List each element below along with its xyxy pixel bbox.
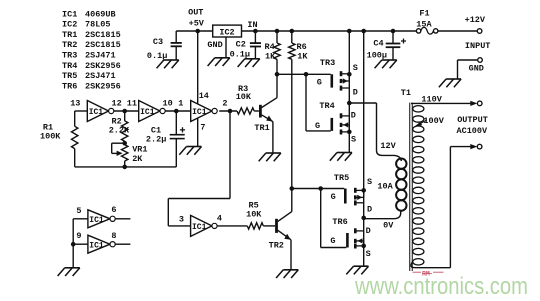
- transformer T1 primary winding 12V/0V 10A: [377, 141, 406, 231]
- wire T1 secondary bottom to output terminal: [411, 144, 477, 268]
- svg-text:TR3: TR3: [62, 51, 77, 61]
- svg-text:F1: F1: [419, 8, 429, 18]
- svg-text:IC1: IC1: [140, 108, 155, 117]
- svg-text:IC1: IC1: [192, 108, 207, 117]
- svg-text:GND: GND: [207, 40, 222, 50]
- terminal GND (input): [458, 58, 484, 79]
- svg-text:OUT: OUT: [188, 8, 203, 18]
- svg-text:4069UB: 4069UB: [85, 9, 116, 19]
- svg-text:TR3: TR3: [320, 58, 335, 68]
- svg-text:TR4: TR4: [62, 61, 77, 71]
- transformer T1 secondary winding: [413, 106, 424, 265]
- svg-text:15A: 15A: [416, 19, 432, 29]
- fuse F1 15A: [416, 8, 438, 34]
- svg-text:2: 2: [222, 99, 227, 109]
- svg-text:1: 1: [178, 99, 183, 109]
- ground (C2): [238, 59, 260, 67]
- svg-text:S: S: [366, 249, 371, 259]
- svg-text:TR2: TR2: [62, 40, 77, 50]
- op-amp/inverter IC1 pins 9-8: [76, 231, 130, 253]
- ground (input GND terminal): [439, 79, 461, 87]
- legend: parts list IC1..TR6: [62, 9, 121, 91]
- capacitor C1 2.2u: [146, 111, 185, 167]
- wire TR3/TR4 gate rail: [275, 72, 331, 77]
- wire IC2 GND lead: [207, 37, 226, 57]
- wire pin2 to R3 and feedback node: [219, 109, 237, 114]
- svg-text:S: S: [353, 63, 358, 73]
- svg-text:10A: 10A: [377, 181, 393, 191]
- transistor TR1 2SC1815 (NPN): [254, 74, 277, 152]
- transistor TR6 2SK2956 (N-MOSFET): [330, 216, 370, 259]
- ground (unused inverter inputs): [58, 268, 80, 276]
- label 100V tap with arrow: [415, 116, 445, 127]
- transistor TR4 2SK2956 (N-MOSFET): [315, 101, 356, 145]
- wire rail to TR5 source: [361, 29, 366, 266]
- wire pin10 to pin1: [165, 109, 191, 114]
- svg-text:S: S: [351, 135, 356, 145]
- svg-text:G: G: [331, 192, 336, 202]
- ground (TR4 source): [330, 153, 352, 161]
- transistor TR5 2SJ471 (P-MOSFET): [331, 173, 373, 215]
- transistor TR2 2SC1815 (NPN): [269, 212, 292, 270]
- svg-text:2.2K: 2.2K: [109, 125, 130, 135]
- svg-text:C2: C2: [236, 39, 246, 49]
- ground (C4): [375, 60, 397, 68]
- transformer T1 core: [401, 88, 413, 271]
- potentiometer VR1 2K: [112, 141, 148, 167]
- svg-text:2SJ471: 2SJ471: [85, 71, 116, 81]
- svg-text:+5V: +5V: [189, 19, 205, 29]
- wire TR3/TR4 drains to T1 12V tap: [349, 103, 401, 161]
- resistor R6 1K: [289, 29, 309, 62]
- svg-text:78L05: 78L05: [85, 20, 111, 30]
- svg-text:12: 12: [112, 99, 122, 109]
- capacitor C4 100u: [367, 29, 406, 61]
- svg-text:IC1: IC1: [192, 223, 207, 232]
- svg-text:2SC1815: 2SC1815: [85, 40, 121, 50]
- terminal output AC100V: [457, 115, 489, 149]
- svg-text:2SK2956: 2SK2956: [85, 81, 121, 91]
- ground (TR2 emitter): [276, 270, 298, 278]
- ground (IC1 pin7): [179, 147, 201, 155]
- svg-text:IC2: IC2: [62, 20, 77, 30]
- resistor R3 10K: [236, 84, 259, 114]
- op-amp/inverter IC1 pins 11-10: [127, 99, 173, 122]
- svg-text:110V: 110V: [421, 95, 442, 105]
- svg-text:2SJ471: 2SJ471: [85, 51, 116, 61]
- svg-text:D: D: [351, 110, 356, 120]
- wire inverter inputs to ground: [71, 219, 88, 267]
- wire pin4 to R5: [217, 225, 247, 227]
- wire R6 column down to TR2 collector / gate rail: [291, 59, 293, 211]
- op-amp/inverter IC1 pins 13-12: [70, 99, 122, 122]
- svg-text:TR5: TR5: [62, 71, 77, 81]
- wire rail to TR3 source: [347, 29, 352, 153]
- terminal +12V: [465, 15, 491, 51]
- svg-text:6: 6: [111, 205, 116, 215]
- svg-text:2.2μ: 2.2μ: [146, 135, 166, 145]
- svg-text:11: 11: [127, 99, 137, 109]
- svg-text:TR1: TR1: [62, 30, 77, 40]
- svg-text:IN: IN: [247, 20, 257, 30]
- transistor TR3 2SJ471 (P-MOSFET): [317, 58, 358, 97]
- terminal output 110V: [477, 101, 482, 106]
- svg-text:D: D: [353, 88, 358, 98]
- op-amp/inverter IC1 pins 1-2: [178, 99, 227, 122]
- svg-text:IC1: IC1: [89, 216, 104, 225]
- svg-text:T1: T1: [401, 88, 411, 98]
- svg-text:TR6: TR6: [332, 217, 347, 227]
- svg-text:13: 13: [70, 99, 80, 109]
- svg-text:INPUT: INPUT: [465, 41, 491, 51]
- svg-text:G: G: [330, 236, 335, 246]
- svg-text:100V: 100V: [423, 116, 444, 126]
- svg-text:C4: C4: [373, 39, 383, 49]
- svg-text:IC1: IC1: [89, 241, 104, 250]
- svg-text:IC2: IC2: [219, 28, 234, 38]
- svg-text:100K: 100K: [40, 131, 61, 141]
- svg-text:2K: 2K: [132, 154, 143, 164]
- wire pin12 to pin11: [114, 109, 139, 114]
- svg-text:OUTPUT: OUTPUT: [457, 115, 488, 125]
- resistor R1 100K: [40, 111, 87, 167]
- svg-text:TR5: TR5: [334, 173, 349, 183]
- svg-text:TR1: TR1: [254, 123, 269, 133]
- svg-text:10K: 10K: [236, 92, 252, 102]
- svg-text:5: 5: [76, 206, 81, 216]
- watermark RM (red): [413, 270, 444, 277]
- wire IC1 pin14 to +5V: [198, 31, 209, 104]
- svg-text:IC1: IC1: [62, 9, 77, 19]
- svg-text:9: 9: [76, 231, 81, 241]
- svg-text:TR2: TR2: [269, 241, 284, 251]
- svg-text:3: 3: [179, 215, 184, 225]
- node OUT +5V: [188, 8, 205, 34]
- svg-text:100μ: 100μ: [367, 50, 387, 60]
- svg-text:TR6: TR6: [62, 81, 77, 91]
- svg-text:7: 7: [200, 123, 205, 133]
- svg-text:IC1: IC1: [89, 108, 104, 117]
- svg-text:12V: 12V: [380, 141, 396, 151]
- wire TR5/TR6 drains to T1 0V tap: [364, 212, 401, 219]
- svg-text:S: S: [367, 177, 372, 187]
- svg-text:1K: 1K: [297, 51, 308, 61]
- svg-text:2SK2956: 2SK2956: [85, 61, 121, 71]
- resistor R4 1K: [265, 29, 281, 75]
- wire TR5/TR6 gate rail: [290, 186, 345, 191]
- svg-text:8: 8: [111, 231, 116, 241]
- svg-text:D: D: [367, 205, 372, 215]
- svg-text:G: G: [317, 77, 322, 87]
- svg-text:C3: C3: [153, 37, 163, 47]
- svg-text:+12V: +12V: [465, 15, 486, 25]
- ground (IC2): [208, 58, 230, 66]
- wire gate drop to TR6: [320, 189, 322, 248]
- svg-text:10K: 10K: [246, 210, 262, 220]
- wire +5V/+12V top rail: [176, 30, 477, 32]
- regulator IC2 78L05: [213, 25, 242, 37]
- svg-text:G: G: [315, 121, 320, 131]
- ground (TR1 emitter): [259, 153, 281, 161]
- svg-text:10: 10: [163, 99, 173, 109]
- op-amp/inverter IC1 pins 5-6: [76, 205, 130, 228]
- svg-text:4: 4: [217, 214, 222, 224]
- capacitor C3 0.1u: [147, 31, 182, 61]
- wire feedback pin2 to pin3: [229, 111, 231, 199]
- wire gate drop to TR4: [305, 74, 307, 131]
- svg-text:TR4: TR4: [319, 101, 334, 111]
- svg-text:1K: 1K: [265, 51, 276, 61]
- wire oscillator bottom rail: [75, 165, 177, 170]
- svg-text:2SC1815: 2SC1815: [85, 30, 121, 40]
- wire IC1 pin7 to ground: [198, 118, 206, 146]
- svg-text:www.cntronics.com: www.cntronics.com: [354, 273, 528, 300]
- wire T1 secondary top 110V to output: [411, 95, 477, 106]
- ground (TR6 source): [346, 266, 368, 274]
- resistor R2 2.2K: [109, 111, 130, 145]
- svg-text:D: D: [366, 226, 371, 236]
- op-amp/inverter IC1 pins 3-4: [179, 214, 222, 237]
- svg-text:AC100V: AC100V: [457, 126, 489, 136]
- capacitor C2 0.1u: [230, 29, 261, 60]
- svg-text:14: 14: [199, 91, 209, 101]
- svg-text:GND: GND: [469, 64, 484, 74]
- ground (C3): [157, 60, 179, 68]
- svg-text:0V: 0V: [383, 220, 394, 230]
- resistor R5 10K: [246, 201, 275, 230]
